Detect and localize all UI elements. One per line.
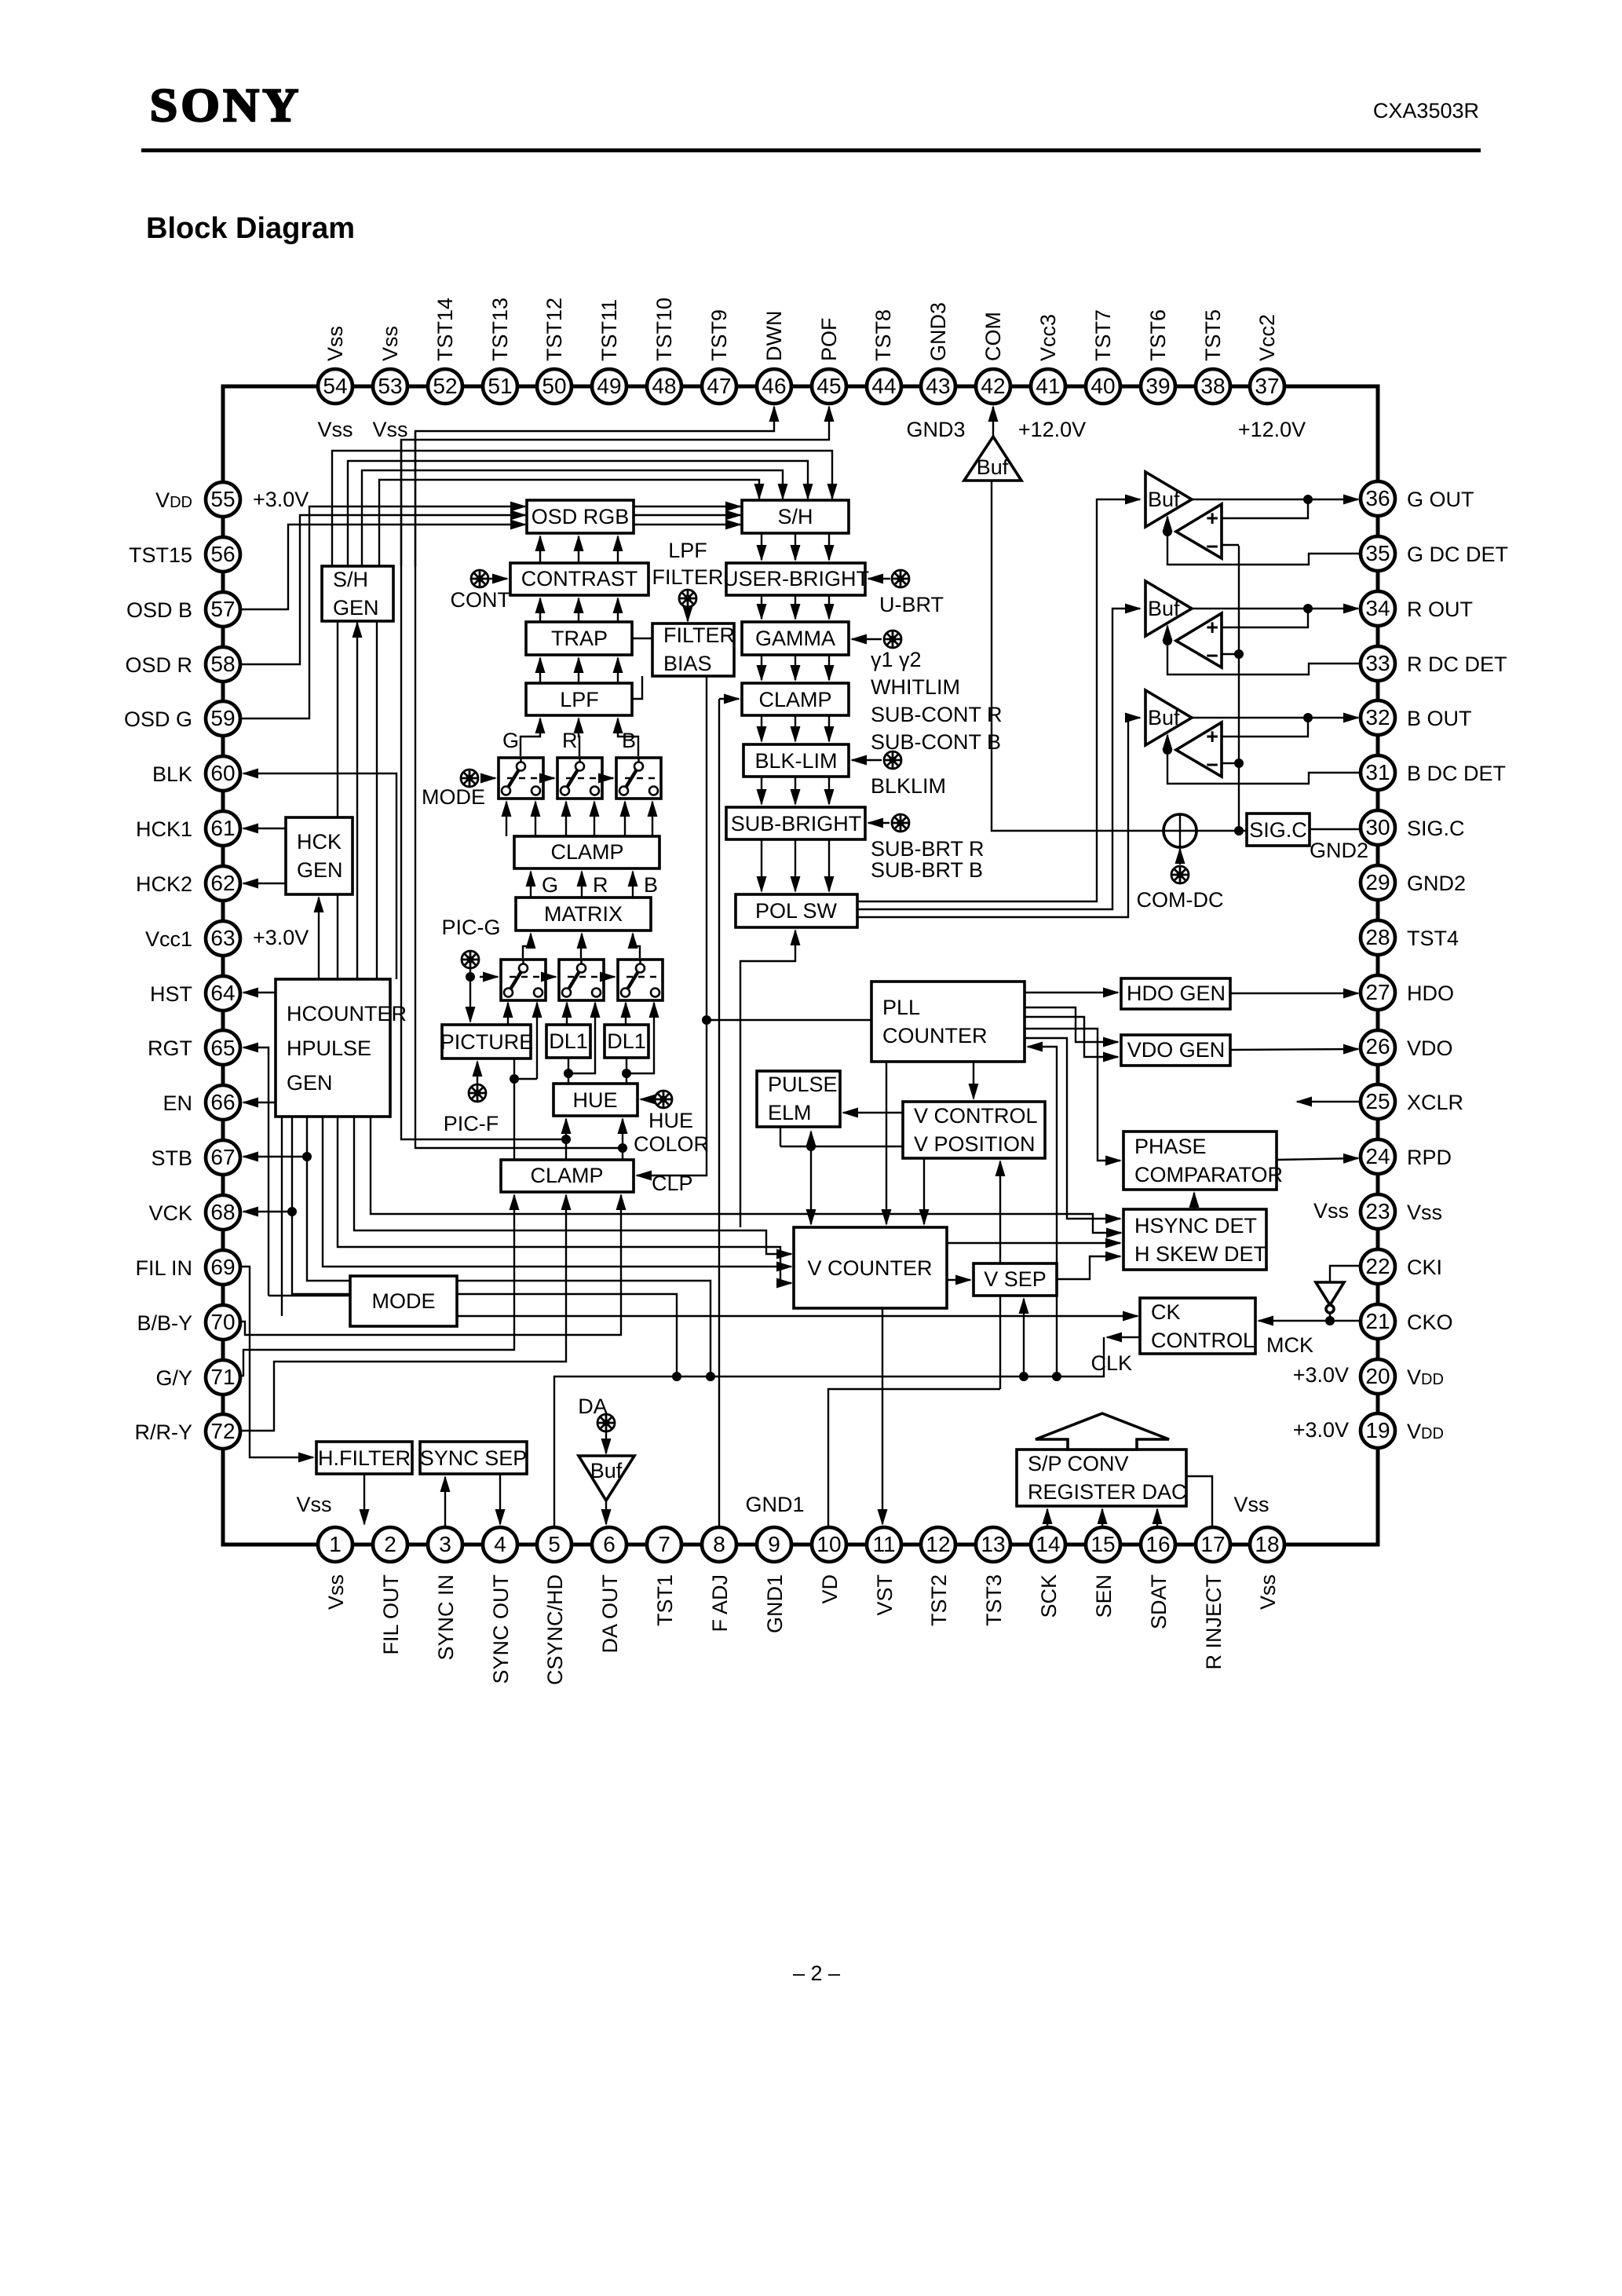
svg-text:ELM: ELM	[768, 1101, 812, 1124]
svg-text:COMPARATOR: COMPARATOR	[1134, 1163, 1283, 1186]
block V SEP	[974, 1263, 1057, 1296]
svg-text:HCK2: HCK2	[136, 872, 192, 896]
wire SUB-BRT to SUB-BRIGHT	[868, 822, 890, 824]
wire pin25 XCLR input stub	[1297, 1101, 1361, 1102]
wire PICTURE to switch row2	[507, 1003, 509, 1025]
svg-text:VD: VD	[818, 1574, 842, 1604]
wire b3 to V COUNTER in3	[338, 1117, 791, 1283]
switch row1 R	[557, 758, 602, 799]
svg-text:+12.0V: +12.0V	[1018, 418, 1086, 441]
block GAMMA	[742, 622, 849, 655]
pin 49 TST11	[592, 369, 627, 404]
wire R minus input to bus	[1222, 653, 1239, 655]
wire pin16 SDAT to S/P CONV	[1156, 1509, 1158, 1527]
wire DA control to buffer	[605, 1432, 607, 1453]
svg-text:Buf: Buf	[590, 1459, 623, 1483]
svg-text:64: 64	[210, 981, 235, 1005]
svg-text:39: 39	[1145, 374, 1170, 398]
svg-text:V POSITION: V POSITION	[914, 1132, 1036, 1156]
svg-text:R/R-Y: R/R-Y	[135, 1420, 193, 1444]
wire USER-BRIGHT to GAMMA 2	[795, 595, 796, 619]
pin 63 Vcc1	[206, 921, 240, 956]
block H.FILTER	[316, 1442, 412, 1474]
svg-text:CONTRAST: CONTRAST	[521, 567, 638, 590]
svg-text:V CONTROL: V CONTROL	[914, 1104, 1038, 1128]
control DAC CONT	[471, 570, 488, 587]
svg-text:TST4: TST4	[1407, 927, 1459, 950]
wire HUE to DL1 a	[568, 1058, 569, 1084]
svg-text:FIL OUT: FIL OUT	[379, 1574, 403, 1655]
wire pin8 F ADJ vertical	[718, 699, 720, 1527]
svg-text:GEN: GEN	[297, 858, 343, 882]
svg-text:STB: STB	[151, 1146, 192, 1170]
wire CONTRAST to OSD RGB 2	[578, 536, 579, 563]
wire pin14 SCK to S/P CONV	[1047, 1509, 1048, 1527]
wire S/H to USER-BRIGHT 1	[761, 533, 762, 560]
wire BLK-LIM to SUB-BRIGHT 1	[761, 777, 762, 804]
S/P CONV big up arrow	[1036, 1413, 1169, 1450]
svg-text:70: 70	[210, 1310, 235, 1334]
svg-text:GND2: GND2	[1310, 839, 1368, 862]
block TRAP	[526, 622, 632, 655]
svg-text:TST14: TST14	[433, 298, 457, 361]
svg-text:Buf: Buf	[1148, 706, 1180, 729]
junction R out feedback tap	[1303, 604, 1313, 613]
svg-text:Vss: Vss	[1407, 1201, 1442, 1224]
svg-text:– 2 –: – 2 –	[793, 1961, 840, 1985]
svg-text:Vss: Vss	[372, 418, 407, 441]
wire PLL to VDO GEN 2	[1025, 1017, 1118, 1057]
pin 38 TST5	[1196, 369, 1230, 404]
svg-text:FILTER: FILTER	[663, 623, 735, 647]
block CLAMP mid	[514, 836, 659, 868]
svg-text:−: −	[1206, 535, 1218, 558]
wire GAMMA to CLAMP 2	[795, 655, 796, 680]
wire OSD RGB to S/H line2	[634, 514, 740, 516]
wire clk to V SEP	[1023, 1299, 1025, 1377]
pin 8 F ADJ	[702, 1527, 736, 1562]
pin 50 TST12	[537, 369, 572, 404]
block DL1 a	[546, 1025, 590, 1058]
svg-text:G: G	[502, 729, 519, 752]
svg-text:25: 25	[1365, 1089, 1390, 1113]
wire POF tap vertical to HUE net R	[401, 440, 564, 1139]
wire HCOUNTER to pin60 BLK	[243, 773, 396, 979]
wire HCOUNTER to S/H GEN clock	[356, 623, 358, 979]
svg-text:CK: CK	[1151, 1300, 1181, 1324]
svg-text:BLK: BLK	[152, 762, 192, 786]
svg-text:3: 3	[439, 1532, 451, 1556]
wire pin70 B/B-Y to CLAMP	[223, 1195, 621, 1335]
wire OSD R pin58 to OSD RGB	[223, 515, 525, 664]
wire b2 to V COUNTER in1	[354, 1117, 791, 1254]
junction R minus join	[1234, 649, 1244, 659]
wire USER-BRIGHT to GAMMA 1	[761, 595, 762, 619]
pin 21 CKO	[1361, 1304, 1395, 1339]
svg-text:H.FILTER: H.FILTER	[318, 1446, 411, 1470]
junction G out feedback tap	[1303, 495, 1313, 504]
svg-text:TST11: TST11	[597, 299, 621, 361]
wire CLAMP to switch row1 t1	[506, 802, 507, 836]
svg-text:2: 2	[384, 1532, 396, 1556]
svg-text:GAMMA: GAMMA	[755, 627, 835, 650]
wire OSD RGB to S/H line3	[634, 524, 740, 525]
wire clk net to PLL COUNTER input	[1028, 1047, 1057, 1377]
wire HSYNC DET to PHASE COMPARATOR	[1193, 1193, 1195, 1209]
wire pin G DC DET to error amp	[1167, 532, 1361, 565]
wire G error amp to buffer	[1167, 517, 1168, 532]
wire VD net to V CONTROL	[999, 1161, 1001, 1389]
svg-text:B: B	[622, 729, 636, 752]
svg-text:27: 27	[1365, 980, 1390, 1004]
pin 71 GY	[206, 1360, 240, 1395]
pin 47 TST9	[702, 369, 736, 404]
junction B bypass tap	[622, 1069, 631, 1078]
pin 16 SDAT	[1141, 1527, 1175, 1562]
wire gamma ctl to GAMMA	[852, 638, 882, 640]
wire PLL to HSYNC DET	[1025, 1038, 1120, 1219]
wire V COUNTER to HSYNC DET 2	[947, 1242, 1120, 1244]
svg-text:R INJECT: R INJECT	[1202, 1574, 1226, 1670]
wire POL SW to B buffer	[857, 718, 1140, 917]
wire GAMMA to CLAMP 1	[761, 655, 762, 680]
wire PLL to V COUNTER	[886, 1062, 887, 1224]
svg-text:44: 44	[871, 374, 896, 398]
switch row2 G	[501, 960, 546, 1000]
pin 7 TST1	[647, 1527, 681, 1562]
svg-text:CONTROL: CONTROL	[1151, 1329, 1255, 1352]
svg-text:SDAT: SDAT	[1147, 1574, 1171, 1629]
svg-text:58: 58	[210, 652, 235, 676]
pin 68 VCK	[206, 1195, 240, 1230]
wire switch2 G to MATRIX	[523, 934, 531, 958]
svg-text:Vss: Vss	[323, 326, 347, 361]
pin 25 XCLR	[1361, 1084, 1395, 1119]
wire CONTRAST to OSD RGB 3	[617, 536, 619, 563]
svg-text:60: 60	[210, 761, 235, 785]
svg-text:32: 32	[1365, 705, 1390, 729]
block BLK-LIM	[743, 744, 849, 777]
pin 65 RGT	[206, 1030, 240, 1065]
svg-text:COUNTER: COUNTER	[882, 1024, 988, 1047]
block VDO GEN	[1121, 1035, 1230, 1066]
svg-text:59: 59	[210, 706, 235, 730]
svg-text:33: 33	[1365, 651, 1390, 675]
svg-text:Vcc1: Vcc1	[145, 927, 192, 951]
svg-text:GND2: GND2	[1407, 872, 1466, 895]
pin 18 Vss	[1250, 1527, 1284, 1562]
svg-text:TST5: TST5	[1201, 309, 1225, 361]
wire clamp pulse to CLAMP right	[719, 698, 739, 700]
pin 62 HCK2	[206, 866, 240, 901]
pin 31 B DC DET	[1361, 755, 1395, 790]
wire S/H GEN to S/H in1	[379, 480, 759, 566]
wire DWN tap vertical to HUE net B	[415, 431, 620, 1148]
svg-text:PICTURE: PICTURE	[440, 1030, 534, 1054]
wire HCOUNTER to S/H GEN line1	[337, 621, 338, 979]
wire switch2 R to MATRIX	[581, 934, 582, 958]
block S/H	[742, 500, 849, 533]
wire CLAMP to switch row1 t2	[535, 802, 536, 836]
svg-text:SUB-BRT R: SUB-BRT R	[871, 837, 985, 861]
wire CSYNC/HD pin5 clock line	[554, 1337, 1104, 1527]
wire LPF to TRAP 2	[578, 658, 579, 683]
buffer Buf R output	[1145, 581, 1192, 636]
wire R bypass to switch row2	[568, 1003, 595, 1073]
wire MODE net to pin65 RGT	[243, 1047, 269, 1296]
svg-text:41: 41	[1036, 374, 1060, 398]
svg-text:35: 35	[1365, 541, 1390, 565]
pin 59 OSDG	[206, 701, 240, 736]
wire S/H to USER-BRIGHT 2	[795, 533, 796, 560]
wire pin B DC DET to error amp	[1167, 750, 1361, 784]
pin 40 TST7	[1086, 369, 1120, 404]
wire SUB-BRIGHT to POL SW 1	[761, 839, 762, 891]
wire COM buffer to pin42	[992, 407, 994, 440]
wire HUE to DL1 b	[626, 1058, 627, 1084]
control DAC DA	[597, 1414, 615, 1431]
svg-text:47: 47	[707, 374, 731, 398]
wire switch R to LPF	[579, 718, 579, 756]
junction b6 join clk line	[672, 1372, 681, 1381]
svg-text:61: 61	[210, 816, 235, 840]
wire S/H GEN to pin45 POF	[401, 407, 829, 566]
svg-text:REGISTER DAC: REGISTER DAC	[1028, 1480, 1187, 1504]
svg-text:SYNC OUT: SYNC OUT	[489, 1574, 513, 1684]
wire G minus input to bus	[1222, 544, 1239, 546]
buffer Buf B output	[1145, 690, 1192, 745]
pin 57 OSDB	[206, 592, 240, 627]
svg-text:SEN: SEN	[1092, 1574, 1116, 1618]
svg-text:21: 21	[1365, 1309, 1390, 1333]
svg-text:20: 20	[1365, 1364, 1390, 1388]
wire CLAMP to switch row1 t4	[594, 802, 595, 836]
svg-text:+: +	[1206, 506, 1218, 530]
wire CLK arrow out of CK CONTROL	[1107, 1336, 1140, 1338]
wire bundle to pin68 VCK	[243, 1211, 292, 1212]
wire CLP net to PLL COUNTER	[707, 1019, 871, 1021]
svg-text:31: 31	[1365, 760, 1390, 784]
svg-text:FILTER: FILTER	[652, 565, 723, 589]
svg-text:71: 71	[210, 1365, 235, 1389]
junction pulse elm tap	[806, 1142, 816, 1151]
junction B out feedback tap	[1303, 713, 1313, 722]
svg-text:SUB-CONT B: SUB-CONT B	[871, 730, 1001, 754]
pin 24 RPD	[1361, 1139, 1395, 1174]
wire PLL to HDO GEN	[1025, 992, 1118, 993]
svg-text:Vss: Vss	[1313, 1199, 1349, 1223]
wire R buffer output to pin	[1192, 608, 1358, 609]
wire USER-BRIGHT to GAMMA 3	[828, 595, 830, 619]
svg-text:Vss: Vss	[378, 326, 402, 361]
junction STB tap on x391	[302, 1152, 312, 1161]
svg-text:46: 46	[762, 374, 786, 398]
svg-text:B/B-Y: B/B-Y	[137, 1311, 192, 1335]
block V COUNTER	[794, 1227, 947, 1308]
wire HDO GEN to pin27	[1230, 993, 1358, 994]
wire H.FILTER to pin2 FIL OUT	[363, 1474, 365, 1524]
svg-text:Vcc2: Vcc2	[1255, 314, 1279, 361]
svg-text:8: 8	[713, 1532, 725, 1556]
wire CLAMP to BLK-LIM 1	[761, 715, 762, 741]
svg-text:MATRIX: MATRIX	[544, 902, 623, 926]
block PHASE COMPARATOR	[1123, 1132, 1283, 1190]
inverter at CKI/CKO	[1316, 1282, 1344, 1313]
svg-text:30: 30	[1365, 815, 1390, 839]
svg-text:BLKLIM: BLKLIM	[871, 774, 946, 798]
svg-text:B: B	[644, 873, 658, 897]
wire PIC-G to PICTURE	[469, 969, 471, 1022]
wire V CONTROL to PULSE ELM	[843, 1112, 903, 1113]
pin 29 GND2	[1361, 865, 1395, 900]
buffer Buf G output	[1145, 472, 1192, 527]
control DAC MODE ctl	[461, 770, 478, 787]
svg-text:H SKEW DET: H SKEW DET	[1134, 1242, 1266, 1266]
svg-text:PHASE: PHASE	[1134, 1135, 1207, 1158]
svg-text:+3.0V: +3.0V	[253, 488, 309, 511]
control dashed line PIC-G through row2 switches	[480, 976, 498, 978]
pin 51 TST13	[483, 369, 517, 404]
svg-text:Block Diagram: Block Diagram	[146, 212, 355, 245]
svg-text:Vcc3: Vcc3	[1036, 314, 1060, 361]
block OSD RGB	[527, 500, 634, 533]
junction R bypass tap	[564, 1069, 573, 1078]
svg-text:GEN: GEN	[333, 596, 379, 620]
svg-text:+3.0V: +3.0V	[253, 926, 309, 949]
svg-text:BIAS: BIAS	[663, 652, 712, 675]
pin 67 STB	[206, 1140, 240, 1175]
svg-text:72: 72	[210, 1419, 235, 1443]
svg-text:HSYNC DET: HSYNC DET	[1134, 1214, 1257, 1238]
wire TRAP to FILTER BIAS	[632, 638, 652, 639]
svg-text:−: −	[1206, 753, 1218, 777]
svg-text:SONY: SONY	[150, 80, 302, 132]
svg-text:SUB-CONT R: SUB-CONT R	[871, 703, 1003, 726]
block HCK GEN	[286, 817, 353, 894]
wire inverter to MCK line	[1329, 1312, 1331, 1321]
wire CLAMP to switch row1 t5	[624, 802, 626, 836]
svg-text:R: R	[562, 729, 578, 752]
svg-text:50: 50	[542, 374, 566, 398]
svg-text:56: 56	[210, 542, 235, 566]
control DAC U-BRT	[892, 570, 909, 587]
wire pin21 CKO MCK to CK CONTROL	[1259, 1320, 1361, 1322]
wire pin72 R/R-Y to CLAMP	[223, 1195, 566, 1431]
wire OSD B pin57 to OSD RGB	[223, 525, 525, 609]
svg-text:−: −	[1206, 644, 1218, 667]
chip outline border	[223, 386, 1378, 1545]
pin 9 GND1	[757, 1527, 791, 1562]
svg-text:68: 68	[210, 1200, 235, 1224]
svg-text:+: +	[1206, 616, 1218, 639]
pin 41 Vcc3	[1031, 369, 1065, 404]
svg-text:OSD R: OSD R	[125, 653, 192, 677]
svg-text:CSYNC/HD: CSYNC/HD	[543, 1574, 567, 1685]
svg-text:PULSE: PULSE	[768, 1073, 838, 1096]
wire SYNC SEP to pin4 SYNC OUT	[499, 1474, 501, 1524]
wire SIG.C box to pin30	[1310, 828, 1361, 830]
wire TRAP to CONTRAST 1	[539, 598, 541, 622]
block HUE	[553, 1084, 637, 1116]
pin 12 TST2	[921, 1527, 955, 1562]
pin 22 CKI	[1361, 1249, 1395, 1284]
block PLL COUNTER	[871, 982, 1025, 1062]
svg-text:5: 5	[548, 1532, 561, 1556]
svg-text:TRAP: TRAP	[551, 627, 608, 650]
svg-text:36: 36	[1365, 486, 1390, 510]
svg-text:63: 63	[210, 926, 235, 950]
svg-text:TST8: TST8	[871, 309, 895, 361]
pin 55 VDD	[206, 482, 240, 517]
svg-text:38: 38	[1200, 374, 1225, 398]
svg-text:HDO GEN: HDO GEN	[1127, 982, 1226, 1005]
svg-text:V COUNTER: V COUNTER	[807, 1256, 932, 1280]
wire switch G to LPF	[521, 718, 540, 756]
wire CLAMP to BLK-LIM 2	[795, 715, 796, 741]
svg-text:Buf: Buf	[1148, 597, 1180, 620]
block SUB-BRIGHT	[726, 807, 865, 839]
wire B error amp to buffer	[1167, 735, 1168, 750]
svg-text:BLK-LIM: BLK-LIM	[754, 749, 837, 773]
wire B minus input to bus	[1222, 762, 1239, 764]
wire bundle to pin67 STB	[243, 1156, 307, 1157]
pin 53 Vss	[373, 369, 407, 404]
svg-text:HCK: HCK	[297, 830, 342, 854]
svg-text:G OUT: G OUT	[1407, 488, 1474, 511]
svg-text:18: 18	[1255, 1532, 1279, 1556]
svg-text:DWN: DWN	[762, 311, 786, 361]
svg-text:23: 23	[1365, 1199, 1390, 1223]
wire MATRIX to CLAMP 3	[632, 872, 634, 898]
junction B error amp out node	[1163, 745, 1172, 755]
wire G buffer output to pin	[1192, 499, 1358, 500]
wire MATRIX to CLAMP 2	[581, 872, 583, 898]
svg-text:HUE: HUE	[648, 1109, 693, 1132]
svg-text:S/H: S/H	[333, 568, 368, 591]
svg-text:B DC DET: B DC DET	[1407, 762, 1506, 785]
svg-text:15: 15	[1090, 1532, 1115, 1556]
pin 54 Vss	[318, 369, 353, 404]
pin 42 COM	[976, 369, 1010, 404]
wire BLK-LIM to SUB-BRIGHT 2	[795, 777, 796, 804]
wire pin69 FIL IN to H.FILTER	[223, 1267, 313, 1457]
svg-text:MODE: MODE	[422, 785, 485, 809]
svg-text:EN: EN	[163, 1091, 192, 1115]
svg-text:CLAMP: CLAMP	[530, 1164, 603, 1187]
svg-text:66: 66	[210, 1090, 235, 1114]
svg-text:B OUT: B OUT	[1407, 707, 1472, 730]
wire pin71 G/Y to CLAMP	[223, 1195, 514, 1376]
svg-text:GEN: GEN	[287, 1071, 333, 1095]
svg-text:13: 13	[981, 1532, 1005, 1556]
svg-text:G DC DET: G DC DET	[1407, 543, 1508, 566]
junction R error amp out node	[1163, 636, 1172, 645]
svg-text:GND1: GND1	[763, 1574, 787, 1633]
svg-text:OSD G: OSD G	[124, 707, 192, 731]
pin 58 OSDR	[206, 647, 240, 682]
wire S/H GEN to S/H in3	[348, 461, 808, 566]
block V CONTROL V POSITION	[903, 1102, 1045, 1158]
pin 14 SCK	[1031, 1527, 1065, 1562]
wire S/H to USER-BRIGHT 3	[828, 533, 830, 560]
svg-text:10: 10	[816, 1532, 841, 1556]
wire MATRIX to CLAMP 1	[530, 872, 532, 898]
svg-text:55: 55	[210, 487, 235, 511]
wire PULSE ELM to V COUNTER double arrow	[810, 1132, 812, 1146]
svg-text:28: 28	[1365, 925, 1390, 949]
pin 48 TST10	[647, 369, 681, 404]
svg-text:48: 48	[652, 374, 676, 398]
